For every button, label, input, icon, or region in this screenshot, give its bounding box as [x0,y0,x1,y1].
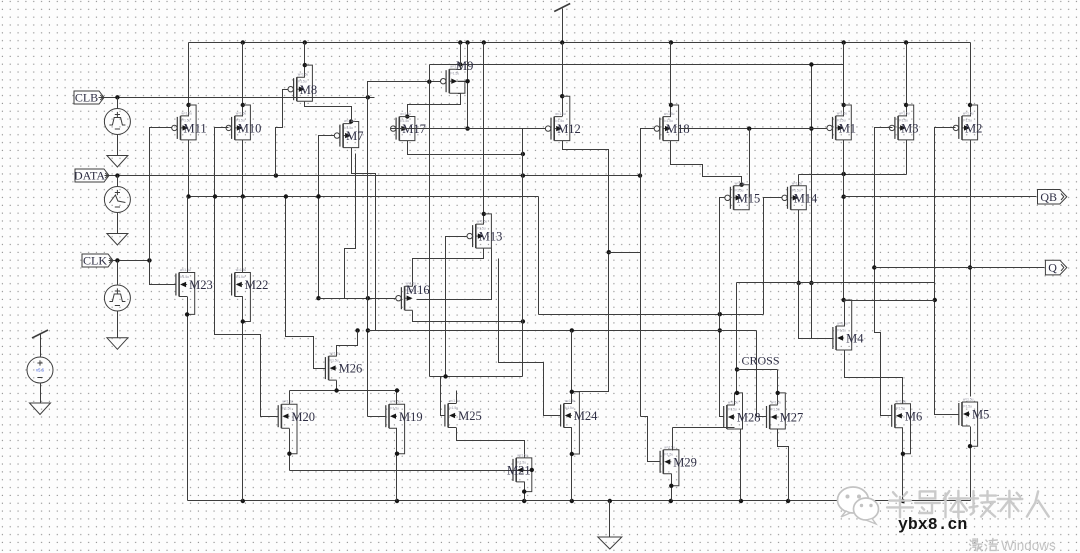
transistor M25 (NMOS) [444,405,446,427]
wire M26 drain up [337,331,358,357]
wire M9 drain to M17 source [408,94,461,117]
wire DATA chain x523 [522,129,524,377]
transistor M27 (NMOS) [766,406,768,428]
wire link to M18 gate [609,252,641,254]
svg-text:M16: M16 [406,283,430,297]
wire M16 drain [413,311,523,322]
node y376/x445 [443,374,447,378]
svg-text:w=1.5u: w=1.5u [899,111,910,115]
svg-text:w=1.5u: w=1.5u [771,401,782,405]
node gnd rail junction x=741 [739,499,743,503]
svg-text:w=1.5u: w=1.5u [792,181,803,185]
node M10 source [241,103,245,107]
transistor M20 (NMOS) [277,405,279,427]
ground of V2 [107,234,128,246]
svg-text:w=1.5u: w=1.5u [735,181,746,185]
wire M9 bulk to rail [467,43,469,129]
svg-text:Windows: Windows [1001,538,1056,553]
transistor M14 (PMOS) [787,187,789,209]
svg-text:M6: M6 [905,409,922,423]
node CLB/M9-M16 branch [366,95,370,99]
wire M10 drain down [242,140,244,197]
wire M27 source down [778,429,789,501]
voltage source V4 (vdc v5.6) [27,357,53,383]
transistor M19 (NMOS) [385,405,387,427]
node y330/M24 [570,328,574,332]
svg-text:w=1.5u: w=1.5u [477,220,488,224]
wire M3 source to rail [906,43,908,117]
node M29 bulk [669,484,673,488]
node sub-rail/M18gate line [809,126,813,130]
svg-text:w=1.5u: w=1.5u [236,268,247,272]
svg-text:w=1.5u: w=1.5u [182,111,193,115]
wire M28 source to rail [740,429,742,501]
wire V1 bottom lead [117,135,119,156]
svg-text:DATA: DATA [74,169,105,183]
transistor M23 (NMOS) [175,274,177,296]
wire M17 drain [408,141,523,155]
node gnd rail junction x=242.8 [241,499,245,503]
svg-text:M14: M14 [794,191,818,205]
node X junction x=188.5 [186,194,190,198]
svg-text:l=1.5u: l=1.5u [728,408,737,412]
wire M1 drain / QB chain [843,140,845,301]
svg-text:M10: M10 [238,122,262,136]
node CLB/V1 [115,95,119,99]
wire V2 top lead [117,176,119,187]
wire vdd stem [562,9,564,43]
wire M24 source down [571,428,573,501]
wire M20 drain up [289,391,291,405]
transistor M10 (PMOS) [231,117,233,139]
wire M18 drain to M15 source [671,141,742,186]
svg-text:v5.6: v5.6 [36,368,45,373]
svg-text:M1: M1 [839,122,856,136]
wire y283 left end to cross [736,283,738,393]
node M20 bulk [287,452,291,456]
node DATA/x523 [521,173,525,177]
node M13 source [482,212,486,216]
node y390/M26 [334,388,338,392]
svg-text:w=1.5u: w=1.5u [963,398,974,402]
transistor M2 (PMOS) [958,117,960,139]
wire y330 line [368,330,757,332]
svg-text:M7: M7 [346,129,363,143]
svg-text:w=1.5u: w=1.5u [517,453,528,457]
wire M13 bulk to M16 bulk [417,249,492,300]
wire M18 source to rail [670,43,672,117]
transistor M8 (PMOS) [293,78,295,100]
node vdd rail junction x=460.3 [458,40,462,44]
wire M5 source down [970,427,972,501]
transistor M21 (NMOS) [512,459,514,481]
wire y330 to M27 gate [757,331,767,417]
node vdd rail junction x=483.8 [482,40,486,44]
node M12 source [560,94,564,98]
port QB [1038,190,1067,205]
wire gnd bottom rail [188,500,971,502]
wire CLK net [109,260,150,262]
wire QB net [844,196,1037,198]
svg-text:M4: M4 [846,332,864,346]
svg-text:M29: M29 [673,455,697,469]
wire M13 drain to M16 [413,249,484,287]
wire M12 source to rail [562,43,564,117]
svg-text:M15: M15 [737,191,761,205]
transistor M5 (NMOS) [958,403,960,425]
wire M28 drain up [734,393,736,405]
node M15gate/y330 [718,328,722,332]
node Q/x874 [872,265,876,269]
svg-text:M18: M18 [666,122,690,136]
svg-text:M13: M13 [479,230,503,244]
wire M14 drain down [798,210,800,283]
node gnd rail junction x=397 [395,499,399,503]
svg-text:l=1.5u: l=1.5u [837,329,846,333]
wire DATA net [105,175,641,177]
wire M10/M22 gate net [215,128,279,417]
svg-text:w=1.5u: w=1.5u [728,401,739,405]
vdd supply symbol [554,4,570,12]
node M6 bulk [901,452,905,456]
wire step near M16 [345,154,356,299]
node M8 source [303,63,307,67]
node M9 gate branch [427,80,431,84]
node gnd rail junction x=524.2 [522,499,526,503]
node vdd rail junction x=671 [669,40,673,44]
wire M19 gate stub [368,416,386,418]
svg-text:l=1.5u: l=1.5u [449,406,458,410]
node M4 source [842,298,846,302]
node Q tap [968,265,972,269]
wire y470 line [290,470,532,472]
port DATA [75,169,109,182]
wire M17/M12 gate line [391,128,546,130]
wire M8 drain to M7 source [305,102,352,124]
wire M21 source down [524,482,526,501]
node CLK/V3 [115,258,119,262]
node CROSS [735,367,739,371]
node M1 source [842,103,846,107]
node M17 source [405,114,409,118]
node M5 bulk [968,444,972,448]
wire x797 to M4 gate [799,283,833,339]
wire M9 gate from CLB [368,82,441,98]
wire M8 gate to DATA [276,90,289,176]
transistor M26 (NMOS) [324,357,326,379]
wire M13 source from rail [483,43,485,225]
svg-text:M27: M27 [780,411,804,425]
node M22 bulk [241,319,245,323]
wire M29 drain up [672,428,674,451]
wire M4 drain up [844,301,846,327]
node y390/M19 [395,388,399,392]
svg-text:M26: M26 [339,362,363,376]
node M7gate/M16gate [316,296,320,300]
wire M10 source to rail [242,43,244,117]
vdd symbol at V4 [32,330,48,338]
wire y314 line [539,314,764,316]
node y314/M15gate vert [718,312,722,316]
svg-text:w=1.5u: w=1.5u [963,111,974,115]
svg-text:w=1.5u: w=1.5u [236,111,247,115]
wire CLB net [99,97,375,99]
wire M11 source to rail [188,43,190,117]
node sub-rail link [458,62,462,66]
wire M24 gate [499,259,561,416]
wire vdd top rail [189,42,971,44]
wire M11 drain to nodeX [188,140,190,197]
transistor M13 (PMOS) [472,225,474,247]
node M19 bulk [395,452,399,456]
wire y314 to M14 gate [764,198,782,315]
transistor M24 (NMOS) [560,405,562,427]
svg-text:M8: M8 [300,83,317,97]
wire y376 line [430,376,523,378]
voltage source V2 (DATA pwl) [104,187,130,213]
svg-text:w=1.5u: w=1.5u [344,119,355,123]
wire cross link [737,369,778,371]
transistor M4 (NMOS) [832,327,834,349]
svg-text:w=1.5u: w=1.5u [282,400,293,404]
svg-text:l=1.5u: l=1.5u [330,359,339,363]
svg-text:w=1.5u: w=1.5u [896,399,907,403]
node CLK branch [147,258,151,262]
svg-text:w=1.5u: w=1.5u [837,111,848,115]
wire V3 top lead [117,261,119,285]
wire M3 drain to y174 [906,140,908,175]
svg-text:w=1.5u: w=1.5u [180,268,191,272]
node QB tap [842,195,846,199]
wire M8 source to rail [304,43,306,78]
wire node X horizontal [189,196,539,198]
voltage source V3 (CLK pulse) [104,285,130,311]
svg-text:CLK: CLK [83,254,107,268]
wire M2 drain / Q chain [970,140,972,397]
transistor M22 (NMOS) [231,274,233,296]
transistor M11 (PMOS) [176,117,178,139]
node M27 drain [776,391,780,395]
transistor M18 (PMOS) [659,118,661,140]
wire M26 source down [336,381,338,391]
wire y283 line [737,282,935,284]
voltage source V1 (CLB pulse) [104,109,130,135]
node DATA/V2 [115,173,119,177]
wire M28-M29 link [673,427,735,429]
node DATA/M8gate [274,173,278,177]
node DATA/x640 [638,173,642,177]
svg-text:M19: M19 [399,410,423,424]
node X junction x=242.8 [241,194,245,198]
wire V2 bottom lead [117,213,119,234]
svg-text:CROSS: CROSS [742,354,780,368]
transistor M7 (PMOS) [339,125,341,147]
node vdd rail junction x=843.7 [842,40,846,44]
node M24 drain [570,390,574,394]
node cross/M28drain [735,391,739,395]
watermark text 半导体技术人 [893,492,897,496]
node M18 source [669,103,673,107]
wire CLB chain x367 [367,98,369,417]
node x934/y300 [933,298,937,302]
svg-text:Q: Q [1048,261,1057,275]
wire sub-rail drop x811 [811,65,813,339]
watermark logo (chat bubbles) [838,487,869,513]
node M7gate/nodeX [316,194,320,198]
svg-text:M17: M17 [402,122,426,136]
wire M22 source down [242,297,244,501]
wire x811 end at M4 gate [811,283,813,339]
svg-text:CLB: CLB [75,91,98,105]
wire CLK to M11/M23 gates [150,128,176,285]
wire M9 source to rail [458,43,461,70]
wire M18 gate vertical [641,129,655,417]
ground main [598,537,622,549]
svg-text:M3: M3 [901,122,918,136]
node X junction x=215 [213,194,217,198]
svg-text:l=1.5u: l=1.5u [664,452,673,456]
node sub-rail x811 [809,62,813,66]
svg-text:M9: M9 [456,59,473,73]
node gnd rail junction x=609.8 [608,499,612,503]
svg-text:l=1.5u: l=1.5u [390,407,399,411]
ground of V4 [30,403,51,415]
wire M13 gate chain [446,237,467,377]
port CLB [74,91,104,104]
svg-text:M21: M21 [507,464,531,478]
svg-text:w=1.5u: w=1.5u [664,112,675,116]
node sub-rail y283 [809,281,813,285]
transistor M29 (NMOS) [659,451,661,473]
transistor M6 (NMOS) [891,405,893,427]
node M7 source [349,119,353,123]
transistor M15 (PMOS) [729,187,731,209]
wire x429 vertical [429,65,431,377]
wire M25 gate [441,377,445,416]
wire M15 gate to cross [720,198,725,417]
wire M7 gate chain [319,136,335,299]
wire M15 bulk from y128 [749,129,751,198]
transistor M3 (PMOS) [894,117,896,139]
wire M14 source to y174 [798,175,800,186]
node M16drain/DATA vert [521,319,525,323]
node M17drain/x523 [521,152,525,156]
transistor M16 (PMOS) [400,287,402,309]
wire V1 top lead [117,98,119,109]
node gnd rail junction x=902.9 [901,499,905,503]
wire M26 gate chain [286,197,326,369]
node M21 bulk tap [530,468,534,472]
svg-text:l=1.5u: l=1.5u [236,275,245,279]
svg-text:M24: M24 [574,409,598,423]
svg-text:M28: M28 [737,411,761,425]
node M24 bulk [570,452,574,456]
transistor M12 (PMOS) [550,118,552,140]
svg-text:M25: M25 [458,409,482,423]
wire M2/M5 gate chain [935,128,959,415]
transistor M1 (PMOS) [832,117,834,139]
wire M1 source to rail [843,43,845,117]
node M3 source [904,103,908,107]
wire M16 gate line [319,298,396,300]
node M2 source [968,103,972,107]
svg-text:M23: M23 [189,278,213,292]
svg-text:l=1.5u: l=1.5u [282,407,291,411]
wire M23 source down [187,297,189,501]
wire vdd sub-rail [430,64,844,66]
node y128/M15bulk [747,126,751,130]
wire y390 line [290,390,400,392]
wire V4 bottom lead [40,384,42,403]
svg-text:QB: QB [1040,190,1057,204]
transistor M17 (PMOS) [395,118,397,140]
port Q [1045,260,1066,275]
node gnd rail junction x=788.1 [786,499,790,503]
node vdd rail junction x=304.8 [303,40,307,44]
svg-text:w=1.5u: w=1.5u [555,112,566,116]
node M12drain/M18gate [607,250,611,254]
node X junction x=318.5 [316,194,320,198]
wire M20 source down [289,429,291,471]
svg-text:ybx8.cn: ybx8.cn [898,515,967,534]
node x367/y330 [366,328,370,332]
svg-text:l=1.5u: l=1.5u [896,406,905,410]
wire y300 line [844,300,935,302]
wire M18bulk-M1gate line [679,128,827,130]
svg-text:w=1.5u: w=1.5u [390,400,401,404]
svg-text:w=1.5u: w=1.5u [330,352,341,356]
svg-text:M5: M5 [972,408,989,422]
port CLK [82,254,113,267]
svg-text:M22: M22 [245,278,269,292]
node M11 source [186,103,190,107]
wire M23 drain up [187,197,189,273]
svg-text:l=1.5u: l=1.5u [180,275,189,279]
wire cross to M27 drain [777,370,779,405]
svg-text:M20: M20 [291,410,315,424]
svg-text:M2: M2 [965,122,982,136]
svg-text:w=1.5u: w=1.5u [664,445,675,449]
wire gnd stem [609,501,611,537]
ground of V1 [107,156,128,168]
node vdd rail junction x=242.8 [241,40,245,44]
watermark text 激活 Windows [970,540,971,541]
svg-text:w=1.5u: w=1.5u [449,399,460,403]
wire M12 drain chain [563,141,609,392]
wire M25 source to M21 [457,428,525,458]
svg-text:M12: M12 [557,122,581,136]
wire M7 drain down [352,148,376,331]
svg-text:w=1.5u: w=1.5u [400,112,411,116]
wire Q net [875,267,1045,269]
node gnd rail junction x=670.8 [669,499,673,503]
svg-text:w=1.5u: w=1.5u [837,322,848,326]
node vdd rail junction x=467.6 [465,40,469,44]
svg-text:w=1.5u: w=1.5u [298,73,309,77]
wire M9 source-bulk link [458,81,468,83]
node x467/y128 [465,126,469,130]
svg-text:l=1.5u: l=1.5u [565,406,574,410]
node gnd rail junction x=571.8 [570,499,574,503]
wire M4 source to M6 [845,351,903,404]
svg-text:M11: M11 [184,122,207,136]
transistor M28 (NMOS) [723,406,725,428]
transistor M9 (PMOS) [445,70,447,92]
wire M19 drain up [396,391,398,405]
wire y174 line (M14/M1/M3 drains) [799,174,907,176]
node vdd rail junction x=906.1 [904,40,908,44]
wire M29 source down [671,474,673,501]
